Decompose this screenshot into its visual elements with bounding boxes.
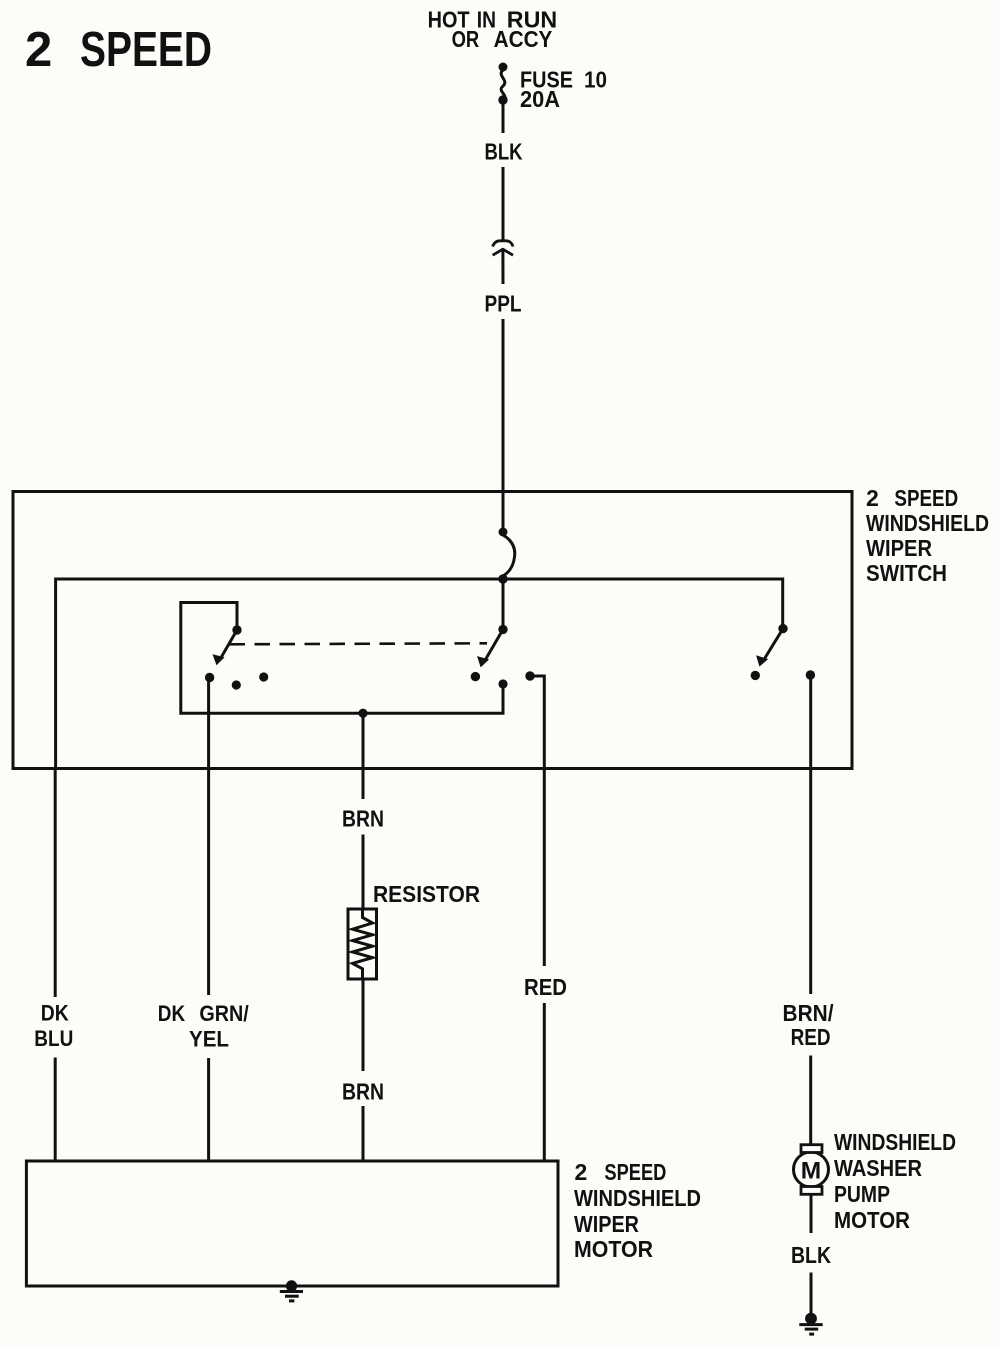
wire BRN to resistor bbox=[362, 835, 365, 911]
wire BRN/RED to washer motor bbox=[809, 1056, 812, 1147]
wire bus center leg down to wiper switch pivot bbox=[502, 579, 505, 629]
svg-text:PUMP: PUMP bbox=[834, 1181, 890, 1207]
svg-text:OR: OR bbox=[452, 26, 480, 52]
wire BLK to ground bbox=[810, 1273, 813, 1315]
ground G1 wiper motor bbox=[286, 1280, 297, 1291]
wire BLK from fuse bbox=[502, 104, 505, 133]
svg-text:2: 2 bbox=[25, 23, 52, 77]
wire RED below switch bbox=[543, 768, 546, 966]
wire BRN upper bbox=[362, 713, 365, 799]
wire BLK washer bbox=[810, 1194, 813, 1233]
svg-text:DK: DK bbox=[41, 1001, 70, 1026]
svg-text:2: 2 bbox=[866, 485, 879, 511]
wiper motor box bbox=[26, 1161, 558, 1286]
wire DK BLU to motor bbox=[54, 1058, 57, 1162]
contact dot unused a bbox=[232, 680, 241, 689]
svg-text:WASHER: WASHER bbox=[834, 1155, 922, 1181]
svg-text:PPL: PPL bbox=[485, 291, 522, 317]
svg-text:MOTOR: MOTOR bbox=[574, 1236, 653, 1262]
svg-text:WIPER: WIPER bbox=[574, 1211, 639, 1237]
svg-text:BLK: BLK bbox=[485, 138, 523, 164]
mechanical link dashed bbox=[230, 643, 488, 644]
switch arm washer bbox=[778, 624, 787, 633]
svg-text:YEL: YEL bbox=[189, 1026, 229, 1051]
wire DK GRN/YEL from LO contact bbox=[207, 678, 210, 996]
svg-text:GRN/: GRN/ bbox=[199, 1001, 249, 1026]
svg-text:SPEED: SPEED bbox=[604, 1159, 666, 1185]
svg-text:DK: DK bbox=[158, 1001, 186, 1026]
junction dot BRN tap bbox=[358, 709, 367, 718]
svg-text:WINDSHIELD: WINDSHIELD bbox=[834, 1129, 956, 1155]
svg-text:MOTOR: MOTOR bbox=[834, 1207, 910, 1233]
connector curve inside switch bbox=[503, 535, 515, 576]
svg-text:WINDSHIELD: WINDSHIELD bbox=[866, 510, 989, 536]
washer pump motor M1 bbox=[794, 1152, 829, 1187]
node dot washer feed bbox=[806, 670, 815, 679]
wire bus left leg down bbox=[54, 578, 57, 769]
svg-text:10: 10 bbox=[584, 67, 607, 93]
contact dot LO bbox=[205, 673, 214, 682]
svg-text:WINDSHIELD: WINDSHIELD bbox=[574, 1185, 701, 1211]
svg-text:BLU: BLU bbox=[34, 1026, 73, 1051]
wire PPL bbox=[501, 250, 504, 284]
wire RED to motor bbox=[543, 1003, 546, 1161]
svg-text:SPEED: SPEED bbox=[894, 485, 958, 511]
svg-text:BRN/: BRN/ bbox=[783, 1000, 835, 1026]
switch arm S1 left pole bbox=[232, 625, 241, 634]
ground G2 washer motor bbox=[805, 1313, 817, 1325]
switch arm S1 center pole bbox=[498, 625, 507, 634]
junction dot curve to bus bbox=[498, 574, 507, 583]
wire BRN to motor bbox=[362, 1106, 365, 1161]
wire bus right leg down to washer switch pivot bbox=[781, 578, 784, 629]
contact dot HI bbox=[471, 672, 480, 681]
svg-text:M: M bbox=[801, 1158, 821, 1185]
svg-text:RED: RED bbox=[791, 1024, 831, 1050]
wire RED feed inside switch bbox=[530, 676, 544, 768]
wire washer feed down inside box bbox=[809, 675, 812, 768]
svg-text:BLK: BLK bbox=[791, 1242, 831, 1268]
svg-text:RESISTOR: RESISTOR bbox=[373, 881, 480, 907]
inline connector C100 bbox=[493, 241, 513, 247]
node dot top of curve bbox=[499, 528, 508, 537]
contact dot unused b bbox=[259, 672, 268, 681]
svg-text:BRN: BRN bbox=[342, 806, 384, 832]
svg-text:SPEED: SPEED bbox=[80, 23, 212, 77]
contact dot RED feed bbox=[525, 671, 534, 680]
wire low-speed loop bbox=[181, 603, 503, 714]
wire BRN/RED below switch bbox=[809, 768, 812, 994]
contact dot washer open bbox=[751, 671, 760, 680]
fuse FUSE 10 20A bbox=[501, 70, 505, 100]
svg-text:SWITCH: SWITCH bbox=[866, 560, 947, 586]
wire PPL below label into switch bbox=[502, 319, 505, 529]
wire BLK below label bbox=[502, 167, 505, 240]
wire BRN below resistor bbox=[362, 979, 365, 1071]
wire DK GRN/YEL to motor bbox=[207, 1058, 210, 1161]
wire DK BLU lower segment bbox=[54, 768, 57, 997]
svg-text:WIPER: WIPER bbox=[866, 535, 932, 561]
switch box outline bbox=[13, 492, 852, 769]
svg-text:ACCY: ACCY bbox=[494, 26, 553, 52]
svg-text:BRN: BRN bbox=[342, 1078, 384, 1104]
node dot loop end bbox=[498, 679, 507, 688]
svg-text:2: 2 bbox=[575, 1159, 588, 1185]
svg-text:RED: RED bbox=[524, 974, 567, 1000]
svg-text:20A: 20A bbox=[520, 86, 560, 112]
wire internal bus bbox=[56, 578, 783, 581]
